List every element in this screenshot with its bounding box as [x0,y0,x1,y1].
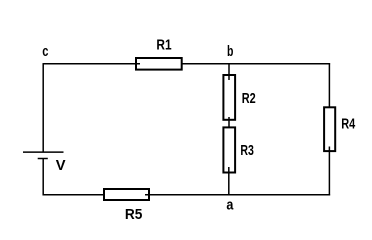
svg-text:R5: R5 [125,206,142,223]
svg-text:a: a [226,196,234,213]
svg-text:R4: R4 [341,115,355,132]
svg-text:R3: R3 [240,142,254,159]
svg-text:R2: R2 [242,90,256,107]
svg-text:V: V [56,157,66,174]
svg-text:R1: R1 [156,37,171,54]
svg-text:c: c [42,43,48,60]
svg-text:b: b [227,43,233,60]
